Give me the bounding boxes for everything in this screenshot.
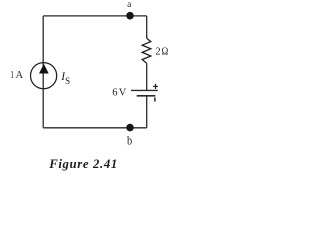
- battery V1 bottom plate: [137, 95, 156, 97]
- svg-text:6: 6: [112, 88, 117, 99]
- wire top: [43, 15, 147, 17]
- wire right middle (resistor to battery): [146, 63, 148, 90]
- svg-text:b: b: [127, 134, 132, 148]
- svg-text:1: 1: [10, 70, 14, 81]
- svg-text:Figure 2.41: Figure 2.41: [48, 157, 118, 171]
- wire bottom: [43, 127, 147, 129]
- current source IS circle: [30, 63, 56, 89]
- battery minus tick: [154, 98, 156, 102]
- battery plus sign: [153, 86, 158, 87]
- svg-text:S: S: [65, 76, 70, 86]
- node b dot: [126, 124, 134, 132]
- svg-text:a: a: [127, 0, 132, 10]
- node a dot: [126, 12, 134, 20]
- wire right upper: [146, 16, 148, 38]
- wire right lower (battery to bottom): [146, 96, 148, 128]
- svg-text:2: 2: [155, 47, 160, 58]
- svg-text:Ω: Ω: [162, 47, 169, 58]
- current source arrow: [39, 64, 49, 74]
- svg-text:A: A: [16, 70, 24, 81]
- resistor R 2ohm zigzag: [142, 38, 151, 63]
- svg-text:V: V: [119, 88, 127, 99]
- battery V1 top plate: [131, 89, 158, 91]
- wire left: [42, 16, 44, 128]
